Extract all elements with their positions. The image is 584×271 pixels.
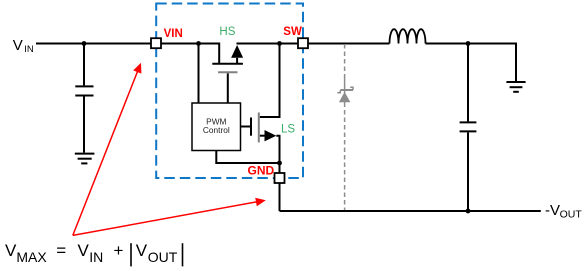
svg-text:Control: Control xyxy=(203,125,230,135)
svg-text:HS: HS xyxy=(219,26,235,38)
svg-text:SW: SW xyxy=(283,26,302,38)
svg-text:OUT: OUT xyxy=(148,249,178,265)
svg-text:-V: -V xyxy=(545,202,560,219)
svg-text:IN: IN xyxy=(89,249,103,265)
svg-text:+: + xyxy=(114,241,124,260)
svg-text:VIN: VIN xyxy=(164,28,183,40)
svg-text:MAX: MAX xyxy=(16,249,47,265)
svg-text:=: = xyxy=(56,241,66,260)
svg-text:V: V xyxy=(78,241,90,260)
svg-text:LS: LS xyxy=(281,123,295,135)
svg-text:V: V xyxy=(136,241,148,260)
svg-text:IN: IN xyxy=(24,44,34,55)
svg-text:V: V xyxy=(5,241,17,260)
svg-text:V: V xyxy=(13,37,23,54)
svg-text:OUT: OUT xyxy=(560,209,583,221)
svg-text:GND: GND xyxy=(248,164,275,178)
